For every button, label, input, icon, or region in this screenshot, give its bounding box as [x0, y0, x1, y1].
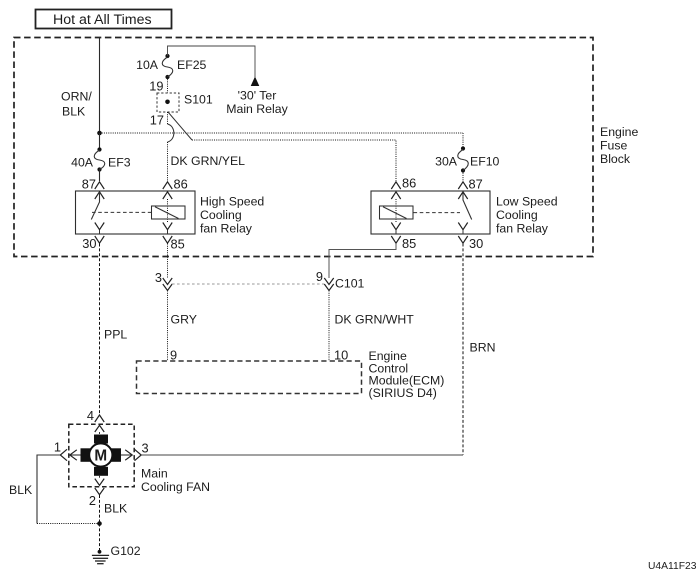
fan pin 1 chevron outside — [60, 449, 67, 460]
Engine Fuse Block label — [600, 125, 638, 166]
svg-text:High Speed: High Speed — [200, 195, 264, 209]
fan pin 1 arrow inside — [70, 450, 81, 460]
wire EF25 to S101 — [167, 77, 169, 93]
label box "Hot at All Times" — [36, 10, 172, 29]
motor M1 circle — [89, 443, 112, 466]
svg-text:Engine: Engine — [600, 125, 638, 139]
dashed coil link K2 — [414, 212, 461, 214]
svg-text:Cooling FAN: Cooling FAN — [141, 480, 210, 494]
wire pin86 through coil — [167, 199, 169, 222]
svg-text:3: 3 — [142, 441, 149, 456]
connector C101 right half chevrons — [324, 278, 333, 291]
svg-text:EF10: EF10 — [470, 155, 500, 169]
svg-text:fan Relay: fan Relay — [496, 222, 549, 236]
fan pin 3 chevron outside — [135, 449, 142, 460]
wire PPL from pin 30 down to fan pin 4 — [99, 244, 101, 415]
pin 30 connector chevrons — [95, 223, 104, 244]
svg-text:3: 3 — [155, 270, 162, 285]
wire GRY C101 to ECM pin 9 — [167, 291, 169, 362]
wire fan pin 3 to BRN — [142, 454, 464, 456]
svg-text:Hot at All Times: Hot at All Times — [53, 12, 152, 28]
svg-text:(SIRIUS D4): (SIRIUS D4) — [369, 386, 437, 400]
svg-text:85: 85 — [402, 236, 416, 251]
wire pin86 through coil K2 — [395, 199, 397, 222]
svg-text:S101: S101 — [184, 93, 213, 107]
wire branch to low speed relay pin 86 — [192, 140, 396, 181]
connector C101 left half chevrons — [163, 278, 172, 291]
svg-text:30A: 30A — [435, 155, 458, 169]
svg-text:87: 87 — [469, 177, 483, 192]
wire from EF25 top to Main Relay branch — [168, 46, 256, 77]
svg-text:Cooling: Cooling — [496, 208, 538, 222]
svg-text:1: 1 — [54, 440, 61, 455]
wire low speed pin 85 to C101 — [329, 244, 396, 279]
svg-text:2: 2 — [89, 493, 96, 508]
High Speed Cooling fan Relay label — [200, 195, 264, 236]
svg-text:Main: Main — [141, 467, 168, 481]
arrow to '30' terminal of Main Relay — [251, 77, 260, 87]
fan pin 2 chevron outside — [95, 488, 104, 495]
svg-text:86: 86 — [174, 177, 188, 192]
pin 87 connector chevrons K2 — [458, 182, 467, 199]
svg-text:19: 19 — [149, 79, 163, 94]
svg-text:M: M — [94, 448, 107, 465]
coil K1 — [152, 206, 186, 219]
wire junction to ground — [99, 524, 101, 552]
svg-text:C101: C101 — [335, 277, 365, 291]
svg-text:EF3: EF3 — [108, 156, 131, 170]
wire DK GRN/WHT C101 to ECM pin 10 — [328, 291, 330, 362]
svg-text:ORN/: ORN/ — [61, 90, 92, 104]
svg-text:17: 17 — [150, 113, 164, 128]
dashed coil link K1 — [92, 211, 151, 213]
svg-text:4: 4 — [87, 408, 94, 423]
motor brush pads — [81, 435, 122, 476]
svg-text:10A: 10A — [136, 58, 159, 72]
wire S101 to hop — [167, 112, 169, 124]
wire junction to EF3 — [99, 133, 101, 149]
svg-text:Main Relay: Main Relay — [226, 102, 288, 116]
wire ORN/BLK vertical — [99, 38, 101, 134]
Engine Fuse Block dashed boundary — [14, 38, 593, 257]
fan pin 4 chevrons — [95, 415, 104, 432]
pin 85 connector chevrons — [163, 223, 172, 244]
wire diagonal S101 to low speed branch — [168, 112, 192, 140]
Main Cooling FAN label — [141, 467, 210, 494]
node ground junction dot — [97, 521, 102, 526]
svg-text:fan Relay: fan Relay — [200, 222, 253, 236]
svg-text:BLK: BLK — [9, 483, 33, 497]
svg-text:Block: Block — [600, 152, 631, 166]
ECM dashed box — [137, 361, 362, 394]
wire fan pin 1 BLK to ground junction — [37, 455, 60, 524]
wire BLK bottom horizontal — [37, 523, 100, 525]
pin 85 connector chevrons K2 — [391, 223, 400, 244]
svg-text:G102: G102 — [111, 544, 141, 558]
wire bus corner down to EF10 — [462, 133, 464, 148]
svg-text:30: 30 — [82, 236, 96, 251]
fan pin 2 arrow inside — [95, 476, 104, 486]
node junction dot A — [97, 131, 102, 136]
svg-text:87: 87 — [82, 177, 96, 192]
switch blade K1 — [91, 192, 99, 220]
fuse EF3 40A — [94, 147, 105, 171]
pin 87 connector chevrons — [95, 182, 104, 199]
switch blade K2 — [463, 192, 472, 220]
svg-text:EF25: EF25 — [177, 58, 207, 72]
coil K2 — [380, 206, 414, 219]
svg-text:Fuse: Fuse — [600, 138, 627, 152]
svg-text:Cooling: Cooling — [200, 208, 242, 222]
svg-text:DK GRN/WHT: DK GRN/WHT — [335, 313, 415, 327]
fuse EF25 10A — [162, 54, 173, 79]
wire GRY from pin 85 to C101 — [167, 244, 169, 279]
wire pad feed top — [99, 432, 101, 435]
C101 harness dashed line — [172, 283, 324, 285]
svg-text:BLK: BLK — [104, 502, 128, 516]
relay K2 Low Speed Cooling fan Relay — [371, 191, 490, 234]
wire hop to relay pin 86 — [167, 142, 169, 181]
Engine Control Module label — [369, 349, 445, 400]
svg-text:U4A11F23: U4A11F23 — [648, 561, 697, 572]
pin 30 connector chevrons K2 — [458, 223, 467, 244]
fan motor dashed box — [69, 424, 134, 486]
svg-text:Low Speed: Low Speed — [496, 195, 558, 209]
ground G102 — [92, 550, 109, 564]
ORN/BLK label — [61, 90, 92, 119]
wire fan pin 2 BLK down — [99, 495, 101, 524]
svg-text:BRN: BRN — [470, 341, 496, 355]
svg-text:BLK: BLK — [62, 105, 86, 119]
'30' Ter Main Relay label — [226, 89, 288, 117]
splice S101 — [157, 93, 179, 112]
svg-text:40A: 40A — [71, 156, 94, 170]
wire EF3 to relay pin 87 — [99, 170, 101, 182]
svg-text:30: 30 — [469, 236, 483, 251]
fuse EF10 30A — [458, 146, 469, 172]
svg-text:9: 9 — [316, 269, 323, 284]
svg-text:85: 85 — [171, 237, 185, 252]
wire hop over bus — [168, 124, 174, 142]
svg-text:86: 86 — [402, 176, 416, 191]
svg-text:GRY: GRY — [171, 313, 197, 327]
svg-text:PPL: PPL — [104, 328, 127, 342]
pin 86 connector chevrons — [163, 182, 172, 199]
wire BRN low speed pin 30 down — [462, 244, 464, 456]
wire EF10 to low speed relay pin 87 — [462, 171, 464, 182]
Low Speed Cooling fan Relay label — [496, 195, 558, 236]
pin 86 connector chevrons K2 — [391, 182, 400, 199]
svg-text:DK GRN/YEL: DK GRN/YEL — [171, 154, 246, 168]
fan pin 3 arrow inside — [121, 450, 132, 460]
wire horizontal bus to EF10 — [100, 132, 464, 134]
relay K1 High Speed Cooling fan Relay — [76, 191, 196, 234]
svg-text:'30' Ter: '30' Ter — [238, 89, 277, 103]
